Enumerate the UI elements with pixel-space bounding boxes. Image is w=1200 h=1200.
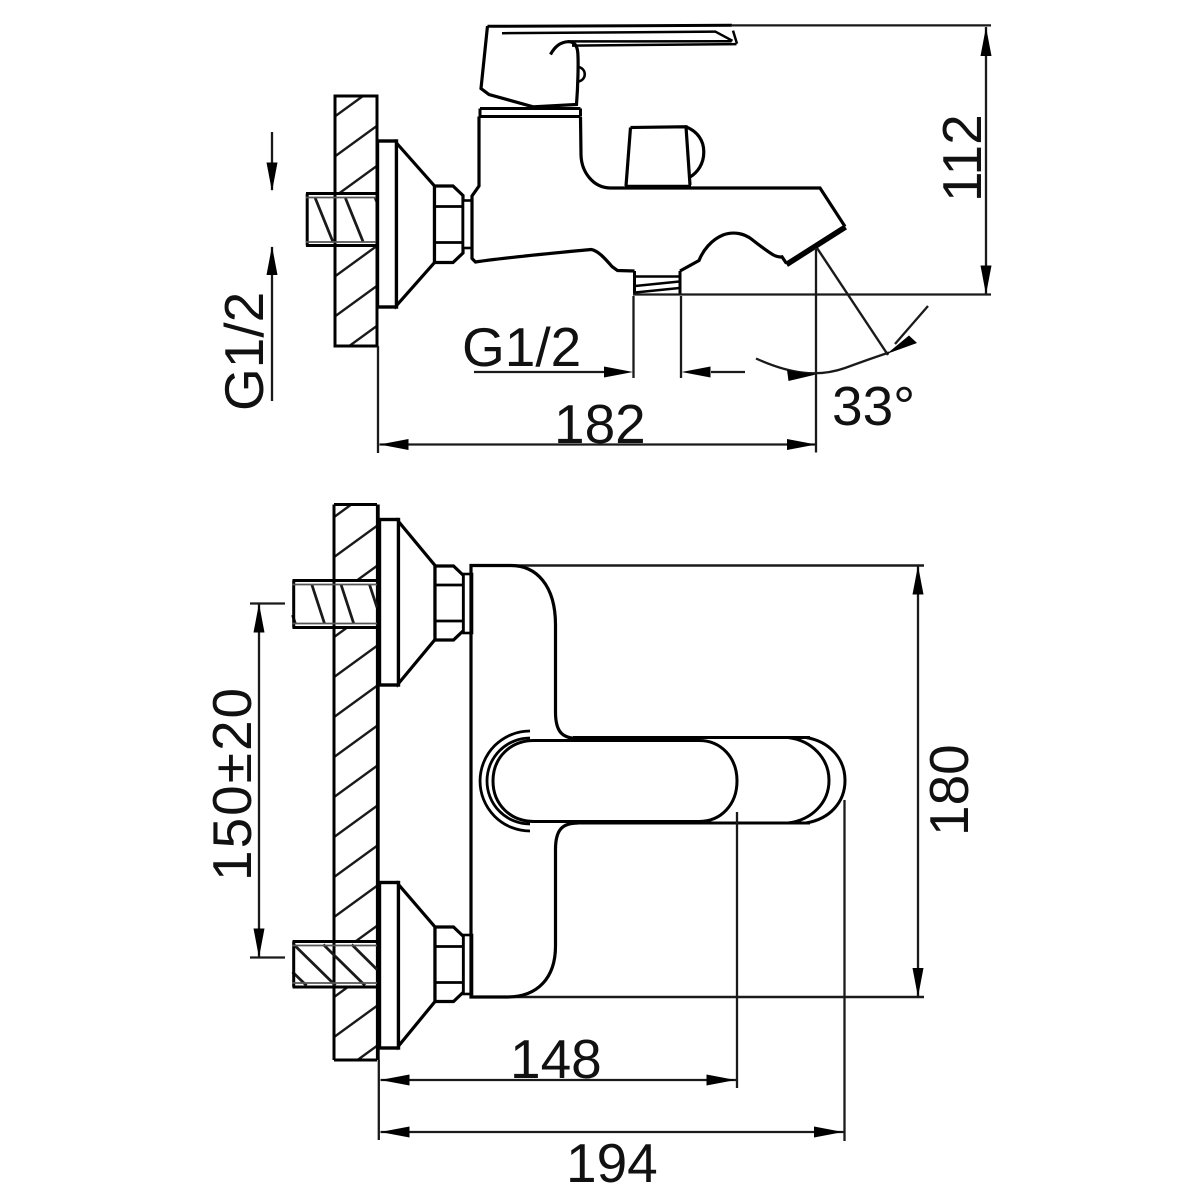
- dimension 150±20: dim line, arrows, ticks: [258, 604, 260, 958]
- dimension G1/2 pipe (side view): arrows: [271, 132, 273, 401]
- wall hatch (side view): [337, 98, 376, 193]
- angle 33: slanted line: [817, 248, 888, 355]
- dimension 148: extension lines: [379, 812, 737, 1140]
- dimension 182: dim line and arrows: [380, 443, 817, 445]
- lower escutcheon flange (front view): [380, 883, 399, 1049]
- dimension 112: extension lines: [633, 25, 991, 294]
- lever grip (front view): [493, 741, 737, 822]
- upper pipe (front view) hatch: [293, 585, 378, 624]
- upper escutcheon flange (front view): [380, 520, 399, 686]
- dimension 182: extension lines: [378, 248, 816, 453]
- dimension 148: dim line and arrows: [381, 1079, 738, 1081]
- shower outlet with threads (side view): [635, 271, 681, 295]
- spout face (thick cut line): [787, 227, 846, 265]
- lower pipe (front view) hatch: [293, 945, 378, 986]
- svg-text:194: 194: [566, 1132, 658, 1194]
- hex nut (side view): [435, 186, 464, 263]
- lower pipe outline: [293, 942, 378, 988]
- lever base pill (front view): [573, 738, 810, 824]
- handle lever blade (side view): [488, 25, 733, 26]
- handle body (side view): [481, 26, 578, 107]
- dimension G1/2 outlet: leader and arrows: [474, 371, 745, 373]
- 180 extension lines (top & bottom, collinear with body edges): [471, 566, 924, 998]
- pipe (side view) hatch: [315, 198, 377, 242]
- angle 33: arc: [756, 353, 889, 374]
- svg-text:112: 112: [931, 114, 993, 202]
- dimension 112: dim line and arrows: [985, 27, 987, 295]
- lower escutcheon cone: [399, 885, 436, 1047]
- svg-text:180: 180: [918, 744, 980, 836]
- svg-text:G1/2: G1/2: [213, 292, 275, 411]
- dimension 194: dim line and arrows: [381, 1131, 845, 1133]
- upper hex nut: [435, 566, 464, 640]
- wall hatch (front view): [336, 506, 377, 580]
- upper pipe outline: [293, 581, 378, 628]
- dimension G1/2 outlet: extension lines: [634, 296, 682, 378]
- diverter knob (side view): [626, 127, 704, 186]
- angle 33: leader arrow: [895, 306, 928, 344]
- dimension 180: dim line and arrows: [917, 566, 919, 998]
- svg-text:182: 182: [554, 393, 646, 455]
- lower ring: [464, 935, 473, 994]
- faucet body outline (side view): [472, 117, 845, 272]
- upper escutcheon cone: [399, 522, 436, 684]
- lower hex nut: [435, 927, 464, 1002]
- dimension 194: extension line: [843, 800, 845, 1141]
- svg-text:150±20: 150±20: [201, 686, 263, 881]
- lever rosette ring arcs (front view): [480, 731, 530, 831]
- lever blade tip (side view): [716, 31, 738, 44]
- ring between nut and body (side view): [463, 201, 472, 249]
- screw dot on handle (side view): [578, 67, 585, 82]
- wall outline (side view): [335, 96, 377, 346]
- svg-text:148: 148: [510, 1028, 602, 1090]
- collar under handle (side view): [480, 109, 581, 117]
- escutcheon flange (side view): [378, 141, 397, 307]
- escutcheon cone (side view): [397, 143, 435, 306]
- svg-text:G1/2: G1/2: [462, 316, 581, 378]
- upper ring: [464, 574, 473, 633]
- wall outline (front view): [334, 505, 377, 1061]
- pipe outline (side view): [306, 194, 377, 246]
- svg-text:33°: 33°: [832, 375, 915, 437]
- faucet body bar (front view): [471, 566, 578, 998]
